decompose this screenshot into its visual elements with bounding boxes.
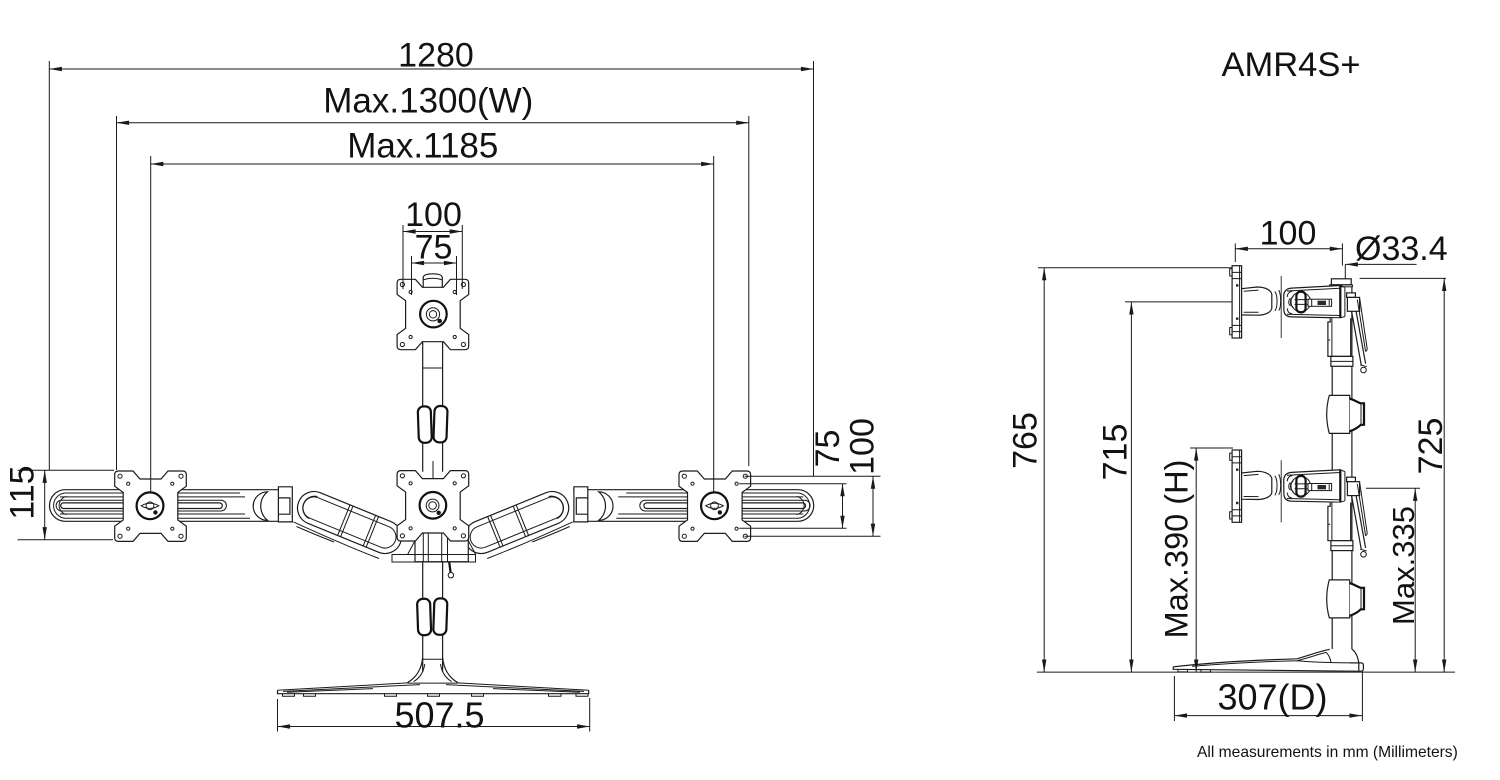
svg-text:75: 75 bbox=[809, 430, 847, 468]
dim 100 right line bbox=[872, 476, 874, 536]
hub housing below centre plate bbox=[415, 532, 468, 562]
top plate outer screw holes bbox=[400, 282, 465, 346]
svg-text:307(D): 307(D) bbox=[1217, 676, 1327, 717]
head body inner edges bbox=[1287, 288, 1340, 315]
right slide bar outer outline bbox=[573, 490, 814, 522]
lower pole section bbox=[423, 562, 443, 672]
hub housing shoulders bbox=[408, 541, 476, 555]
swivel centreline bbox=[1280, 276, 1282, 338]
top VESA plate bbox=[397, 279, 469, 349]
SIDE-VIEW-DRAWING bbox=[1173, 266, 1367, 672]
svg-text:AMR4S+: AMR4S+ bbox=[1221, 46, 1360, 84]
side pole bbox=[1332, 287, 1352, 649]
pole seam line bbox=[423, 367, 443, 369]
tension pin knob bbox=[448, 573, 453, 578]
lower collar knob bbox=[1350, 583, 1364, 616]
vesa plate edge strip bbox=[1232, 266, 1242, 338]
dim Max.1300 extension lines bbox=[117, 116, 749, 470]
lever knob base bbox=[1360, 365, 1367, 367]
svg-text:Max.335: Max.335 bbox=[1386, 506, 1421, 625]
dim 1280 extension lines bbox=[49, 61, 813, 476]
svg-text:507.5: 507.5 bbox=[394, 695, 484, 736]
top mount knob on pole bbox=[423, 274, 442, 288]
left bar crescent end bbox=[253, 492, 267, 521]
dim 725 line bbox=[1443, 278, 1445, 672]
FRONT-VIEW-DRAWING bbox=[50, 274, 814, 697]
left plate hub eye bbox=[141, 503, 159, 508]
dim 115 line bbox=[44, 470, 46, 539]
upper cable clip left bbox=[418, 406, 432, 443]
centre plate hub mid ring bbox=[426, 499, 439, 512]
svg-text:100: 100 bbox=[1260, 215, 1317, 253]
dim 115 reference lines bbox=[18, 470, 115, 539]
dim 765 line bbox=[1043, 268, 1045, 672]
svg-text:Max.1300(W): Max.1300(W) bbox=[323, 82, 533, 121]
dim 725 reference line bbox=[1360, 277, 1446, 279]
head rail block bbox=[1318, 301, 1327, 305]
bracket lower step bbox=[1331, 356, 1353, 366]
upper collar knob face line bbox=[1360, 403, 1362, 425]
left banana arm casing lower edge bbox=[294, 522, 380, 559]
flare base line bbox=[408, 682, 458, 684]
centre VESA plate bbox=[397, 471, 469, 541]
tilt lever knob bbox=[1361, 367, 1367, 373]
left banana arm outer capsule bbox=[297, 491, 401, 553]
head rail bbox=[1308, 299, 1332, 306]
upper monitor head bbox=[1230, 266, 1368, 373]
lower cable clip right bbox=[433, 598, 447, 635]
head second face bbox=[1340, 286, 1345, 318]
below-head bracket bbox=[1328, 318, 1351, 356]
dim 507.5 line bbox=[278, 726, 590, 728]
flare inner arcs bbox=[414, 659, 452, 681]
right plate hub centre bbox=[711, 502, 719, 510]
SIDE-VIEW-DIMENSIONS bbox=[1007, 46, 1458, 761]
svg-text:Ø33.4: Ø33.4 bbox=[1355, 230, 1448, 268]
right bar slot inner bbox=[644, 503, 806, 509]
base bottom edge bbox=[278, 690, 589, 693]
side base top edge bbox=[1173, 649, 1330, 667]
left plate hub ring bbox=[137, 492, 164, 519]
top plate hub ring bbox=[420, 301, 447, 328]
svg-text:1280: 1280 bbox=[398, 36, 474, 74]
dim 100 side line bbox=[1235, 248, 1342, 250]
svg-text:Max.390 (H): Max.390 (H) bbox=[1159, 460, 1195, 639]
right banana arm casing lower edge bbox=[487, 522, 573, 559]
hub housing ribs bbox=[423, 532, 447, 562]
ground line bbox=[1037, 671, 1455, 673]
svg-text:765: 765 bbox=[1007, 412, 1045, 469]
dim Max.335 reference line bbox=[1366, 487, 1420, 489]
plate edge hooks bbox=[1230, 269, 1232, 335]
svg-text:725: 725 bbox=[1412, 418, 1450, 475]
upper pole section bbox=[423, 287, 443, 471]
dim 715 reference line bbox=[1125, 301, 1232, 303]
left elbow bracket bbox=[278, 487, 292, 522]
head knob cross lines bbox=[1295, 300, 1309, 305]
tilt lever bbox=[1352, 311, 1366, 365]
centre plate hub dot bbox=[437, 511, 441, 515]
right plate hub dot bbox=[718, 510, 722, 514]
dim 715 line bbox=[1130, 302, 1132, 672]
dim Max.1185 line bbox=[151, 163, 714, 165]
centre plate hub centre bbox=[429, 502, 437, 510]
side base feet bbox=[1178, 669, 1211, 672]
left banana arm inner capsule bbox=[303, 497, 396, 548]
left plate outer screw holes bbox=[118, 474, 183, 538]
right arm cross line 1 bbox=[513, 505, 528, 537]
head rail divider bbox=[1312, 299, 1330, 306]
base inner rear edge bbox=[283, 685, 584, 693]
lower pole collar bbox=[1327, 580, 1350, 618]
left bar slot inner bbox=[61, 503, 223, 509]
dim 75 top extension lines bbox=[412, 256, 457, 295]
head knob side arcs bbox=[1289, 297, 1294, 308]
right plate hub eye bbox=[706, 503, 724, 508]
left arm cross line 2 bbox=[363, 515, 378, 547]
upper cable clip right bbox=[433, 406, 447, 443]
left arm inner crescent bbox=[303, 496, 318, 518]
tension pin bbox=[449, 562, 450, 573]
dim 1280 line bbox=[49, 68, 813, 70]
right slide bar inner wall lines bbox=[616, 493, 809, 518]
svg-text:All measurements in mm (Millim: All measurements in mm (Millimeters) bbox=[1197, 744, 1458, 761]
pole-base flare left bbox=[408, 658, 423, 683]
dim 75 right reference lines bbox=[739, 476, 880, 536]
dim 307 line bbox=[1174, 715, 1362, 717]
hub housing band bbox=[392, 555, 476, 563]
dim 75 right line bbox=[842, 484, 844, 529]
right bar slot outer bbox=[640, 500, 810, 511]
svg-text:715: 715 bbox=[1097, 424, 1135, 481]
right banana arm inner capsule bbox=[470, 497, 563, 548]
FRONT-VIEW-DIMENSIONS bbox=[4, 36, 882, 735]
plate edge tick marks bbox=[1232, 266, 1242, 338]
lower cable clip left bbox=[417, 599, 431, 636]
upper collar knob bbox=[1350, 399, 1364, 432]
top mount knob cap arc bbox=[423, 278, 442, 280]
dim Max.1300 line bbox=[117, 122, 749, 124]
side base bottom edge bbox=[1173, 667, 1354, 671]
right elbow bracket bbox=[574, 487, 588, 522]
centre plate hub ring bbox=[420, 492, 447, 519]
side base inner lines bbox=[1192, 652, 1350, 666]
right banana arm outer capsule bbox=[465, 491, 569, 553]
right plate hub ring bbox=[701, 492, 728, 519]
side bracket upper rect bbox=[1347, 293, 1356, 298]
right plate outer screw holes bbox=[682, 474, 747, 538]
top plate hub mid ring bbox=[426, 308, 439, 321]
top plate inner screw holes bbox=[409, 290, 456, 338]
head body bbox=[1284, 286, 1341, 318]
bracket step inner line bbox=[1331, 360, 1353, 362]
right VESA plate bbox=[679, 471, 751, 541]
side thin plate diagonal bbox=[1357, 299, 1367, 352]
plate edge dots bbox=[1236, 284, 1238, 320]
head knob capsule bbox=[1296, 292, 1305, 313]
dim 100 side extension lines bbox=[1235, 243, 1342, 265]
base feet bbox=[283, 694, 589, 697]
side pole cap step bbox=[1330, 285, 1353, 287]
ball joint cup bbox=[1275, 290, 1281, 311]
left plate hub dot bbox=[153, 510, 157, 514]
lower monitor head bbox=[1230, 450, 1368, 557]
svg-text:Max.1185: Max.1185 bbox=[347, 126, 498, 165]
right arm cross line 2 bbox=[488, 515, 503, 547]
pole-base flare right bbox=[443, 658, 458, 683]
right plate inner screw holes bbox=[691, 482, 738, 530]
bracket inner line bbox=[1328, 318, 1332, 356]
taper arm to head bbox=[1242, 287, 1272, 315]
base top edge right bbox=[458, 683, 589, 690]
left plate inner screw holes bbox=[127, 482, 174, 530]
svg-text:100: 100 bbox=[844, 418, 882, 475]
lower collar knob face line bbox=[1360, 588, 1362, 610]
side base mound right bbox=[1352, 649, 1359, 663]
base top edge left bbox=[278, 683, 408, 690]
dim 765 reference line bbox=[1038, 267, 1232, 269]
left slide bar inner wall lines bbox=[54, 493, 250, 518]
head right face bbox=[1339, 286, 1341, 318]
hub screw dot bbox=[450, 537, 453, 540]
taper arm inner lines bbox=[1244, 290, 1259, 312]
left VESA plate bbox=[115, 471, 187, 541]
dim 307 extension lines bbox=[1174, 672, 1362, 722]
centre plate inner screw holes bbox=[409, 482, 456, 530]
dim 100 top line bbox=[403, 231, 462, 233]
top plate hub dot bbox=[437, 319, 442, 324]
centre plate seam line bbox=[432, 461, 434, 492]
dim dia 33.4 leader bbox=[1345, 264, 1416, 278]
centre plate outer screw holes bbox=[400, 474, 465, 538]
left bar slot outer bbox=[56, 500, 226, 511]
right arm inner crescent bbox=[549, 496, 564, 518]
side pole cap bbox=[1331, 279, 1351, 285]
side base right end block bbox=[1350, 663, 1363, 671]
top plate hub centre bbox=[429, 311, 436, 318]
head knob gear circle bbox=[1291, 292, 1311, 312]
left plate hub centre bbox=[146, 502, 154, 510]
right bar crescent end bbox=[599, 492, 613, 521]
dim Max.390 reference line bbox=[1190, 447, 1233, 449]
side bracket lower rect bbox=[1347, 297, 1359, 311]
upper pole collar bbox=[1327, 395, 1350, 433]
dim Max.1185 extension lines bbox=[151, 156, 714, 492]
svg-text:75: 75 bbox=[415, 229, 453, 267]
svg-text:115: 115 bbox=[4, 465, 42, 519]
dim 507.5 extension lines bbox=[278, 698, 590, 732]
left arm cross line 1 bbox=[338, 505, 353, 537]
dim 75 top line bbox=[412, 262, 457, 264]
dim 100 top extension lines bbox=[403, 225, 462, 289]
left slide bar outer outline bbox=[50, 490, 294, 522]
dim Max.335 line bbox=[1414, 488, 1416, 672]
dim Max.390 line bbox=[1195, 448, 1197, 672]
